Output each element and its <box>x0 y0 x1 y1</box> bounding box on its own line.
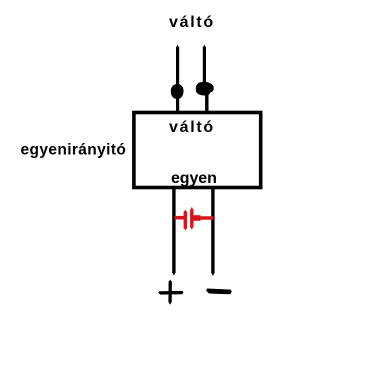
capacitor left lead <box>175 216 186 220</box>
wire: bottom-left DC lead (+) <box>172 189 175 276</box>
rectifier box <box>134 113 261 188</box>
svg-text:egyen: egyen <box>171 170 217 187</box>
capacitor right lead <box>192 216 214 220</box>
wire: top-right AC lead <box>203 45 207 112</box>
wire: bottom-right DC lead (−) <box>211 189 214 276</box>
svg-text:egyenirányitó: egyenirányitó <box>21 142 127 159</box>
minus symbol (−) <box>206 289 232 295</box>
capacitor plate 2 <box>190 210 193 228</box>
svg-text:váltó: váltó <box>169 14 215 31</box>
svg-text:váltó: váltó <box>169 119 215 136</box>
wire: top-left AC lead <box>176 45 179 112</box>
capacitor plate 1 <box>184 212 187 229</box>
plus symbol (+) <box>158 280 183 305</box>
junction dot: right terminal blob <box>196 82 214 96</box>
capacitor C (red, between DC leads) <box>175 207 214 231</box>
junction dot: left terminal blob <box>171 84 184 99</box>
